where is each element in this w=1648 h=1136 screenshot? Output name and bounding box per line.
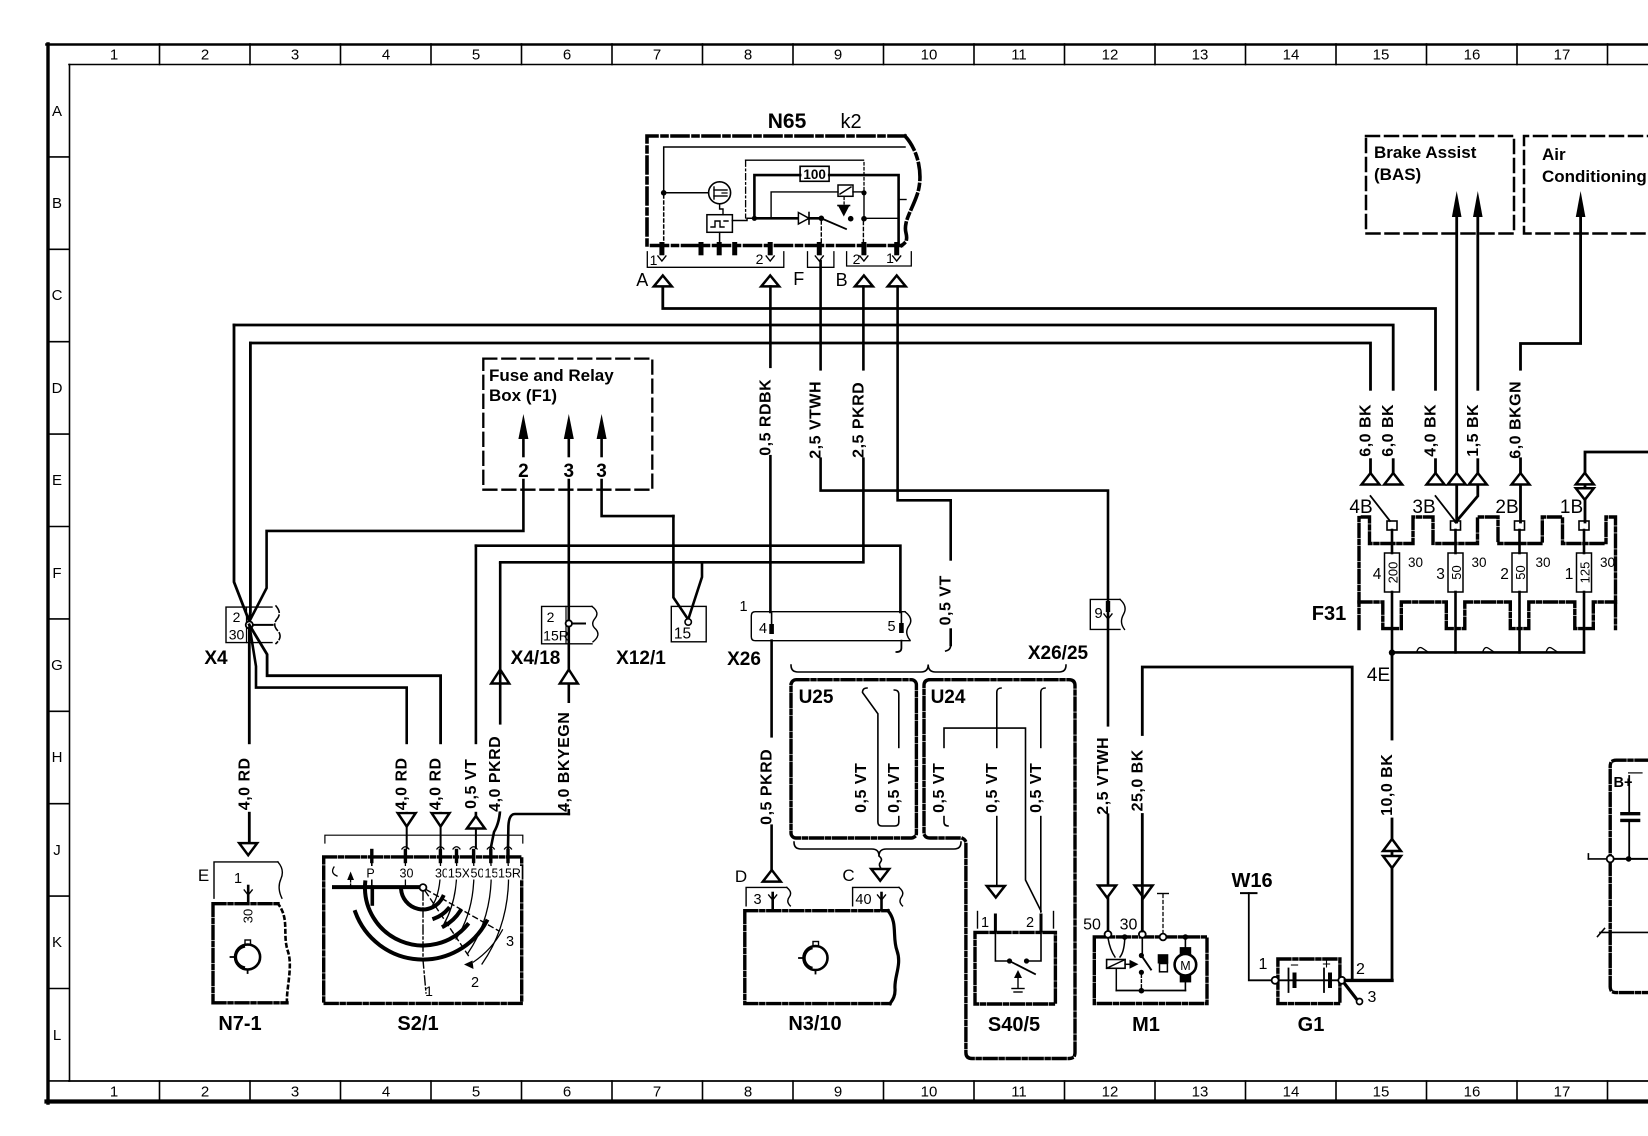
S2/1 position 2 line — [426, 892, 471, 959]
box Fuse and Relay Box (F1) — [483, 359, 652, 490]
wire 0,5 PKRD X26 pin4 to N3/10 pin3 — [770, 641, 773, 870]
svg-text:7: 7 — [653, 1084, 661, 1101]
svg-text:3: 3 — [1368, 989, 1377, 1006]
S2/1 terminal 30 — [404, 851, 407, 862]
N65 relay contact — [819, 216, 825, 222]
svg-text:F: F — [52, 565, 61, 582]
svg-text:1: 1 — [1259, 956, 1268, 973]
svg-text:3: 3 — [506, 934, 514, 950]
S2/1 terminal 30 — [439, 851, 442, 862]
N65 pulse generator — [720, 204, 723, 215]
U25 loop wire — [863, 688, 899, 826]
N65 electronic switch symbol — [838, 185, 853, 196]
svg-text:N65: N65 — [768, 110, 807, 133]
svg-text:4: 4 — [382, 1084, 390, 1101]
svg-text:S40/5: S40/5 — [988, 1014, 1040, 1036]
S2/1 terminal 50 — [472, 851, 475, 862]
box U24 with S40/5 extension — [924, 680, 1075, 1059]
svg-text:2: 2 — [201, 47, 209, 64]
svg-text:17: 17 — [1554, 1084, 1571, 1101]
svg-text:Box (F1): Box (F1) — [489, 386, 557, 405]
F1 arrow 3a — [564, 414, 574, 439]
S2/1 key symbol — [333, 867, 337, 876]
connector triangle S2/1 30a — [398, 813, 416, 827]
N65 second internal wire — [746, 159, 864, 161]
S2/1 terminal labels — [366, 866, 376, 880]
S2/1 position 1 line — [423, 891, 426, 993]
svg-text:4E: 4E — [1367, 665, 1390, 686]
S2/1 terminal curves — [404, 862, 406, 887]
svg-text:6: 6 — [563, 1084, 571, 1101]
fuse F31/2 — [1515, 521, 1525, 530]
connector X12/1 — [671, 606, 706, 641]
svg-text:15R: 15R — [543, 628, 569, 644]
svg-text:2,5 PKRD: 2,5 PKRD — [850, 382, 867, 458]
wire X4 to S2/1 30a — [249, 625, 406, 813]
S2/1 contact arcs — [401, 888, 443, 910]
svg-text:2: 2 — [756, 251, 764, 267]
N65 pin tick x=896.7 — [894, 245, 899, 253]
svg-text:125: 125 — [1578, 562, 1593, 584]
svg-text:4,0 RD: 4,0 RD — [236, 757, 253, 810]
svg-text:2B: 2B — [1495, 497, 1518, 518]
svg-text:100: 100 — [803, 167, 826, 182]
module N7-1 box — [213, 904, 287, 1003]
svg-text:K: K — [52, 934, 62, 951]
fuse F31/3 — [1451, 521, 1461, 530]
wire 0,5 RDBK N65 pin2 to X26 pin4 — [769, 286, 772, 612]
connector 9 — [1090, 599, 1120, 629]
svg-text:17: 17 — [1554, 47, 1571, 64]
svg-text:3B: 3B — [1412, 497, 1435, 518]
N7-1 pin bracket E/1 — [214, 862, 278, 898]
svg-text:2: 2 — [471, 975, 479, 991]
svg-text:S2/1: S2/1 — [397, 1013, 438, 1035]
svg-text:2: 2 — [201, 1084, 209, 1101]
svg-text:3: 3 — [291, 47, 299, 64]
connector X4 — [226, 607, 272, 643]
svg-text:2: 2 — [233, 609, 241, 625]
U24 wire left — [944, 728, 1041, 911]
wire X4 bus left leg upper — [234, 325, 249, 622]
svg-text:6,0 BK: 6,0 BK — [1380, 404, 1397, 457]
svg-text:0,5 VT: 0,5 VT — [984, 763, 1001, 813]
N65 pin tick x=701 — [699, 245, 704, 253]
wire X12/1 funnel — [688, 562, 702, 619]
box U25 — [791, 680, 916, 838]
wire F1-3b to X12/1 — [602, 480, 674, 516]
wire 0,5 VT N65 pin B1 to X26/25 — [898, 286, 951, 645]
svg-text:5: 5 — [887, 619, 895, 635]
wire X4 to N7-1 (4,0 RD) — [248, 629, 251, 844]
svg-text:2: 2 — [547, 609, 555, 625]
svg-text:11: 11 — [1011, 47, 1027, 64]
N65 pin bracket B group — [847, 252, 912, 266]
N65 wire pulse box to diode line — [732, 218, 754, 220]
svg-text:1: 1 — [110, 1084, 118, 1101]
connector triangle N7-1 — [239, 843, 257, 855]
N65 pin bracket F group — [808, 252, 834, 267]
connector symbol double triangle 1B — [1576, 473, 1594, 485]
svg-text:30: 30 — [241, 909, 256, 923]
svg-text:9: 9 — [834, 47, 842, 64]
svg-text:N3/10: N3/10 — [788, 1013, 841, 1035]
svg-text:15: 15 — [1373, 1084, 1390, 1101]
svg-text:1: 1 — [425, 983, 433, 999]
svg-text:5: 5 — [472, 47, 480, 64]
M1 solenoid — [1108, 938, 1115, 957]
fuse bus at bottom of F31 — [1392, 651, 1584, 654]
svg-text:X4/18: X4/18 — [511, 648, 561, 669]
S2/1 terminal 15R — [506, 851, 509, 862]
svg-text:N7-1: N7-1 — [218, 1013, 261, 1035]
svg-text:4: 4 — [382, 47, 390, 64]
G1 terminal 2 — [1338, 977, 1345, 984]
svg-text:50: 50 — [1513, 565, 1528, 579]
svg-text:3: 3 — [1436, 566, 1445, 583]
svg-text:6,0 BKGN: 6,0 BKGN — [1508, 381, 1525, 459]
N65 pin tick x=770.2 — [768, 245, 773, 253]
wire 50-line S2/1 to X26 pin 5 — [475, 546, 478, 816]
svg-text:50: 50 — [1449, 565, 1464, 579]
N65 wire pulse box to bottom pin — [719, 232, 721, 245]
N65 diode — [754, 217, 821, 220]
svg-text:A: A — [636, 270, 648, 290]
wire brace to N3/10 pin 40 — [879, 856, 882, 869]
S2/1 terminal P — [370, 851, 373, 862]
svg-text:Brake Assist: Brake Assist — [1374, 143, 1477, 162]
B+ wire horizontal — [1614, 858, 1648, 860]
S2/1 selector arrow — [473, 930, 502, 962]
B+ capacitor — [1628, 776, 1630, 812]
svg-text:A: A — [52, 103, 62, 120]
M1 switch — [1141, 938, 1143, 953]
svg-text:0,5 VT: 0,5 VT — [853, 763, 870, 813]
wire size/color labels — [1361, 391, 1380, 459]
svg-text:3: 3 — [291, 1084, 299, 1101]
svg-text:U25: U25 — [799, 687, 834, 708]
svg-text:4,0 PKRD: 4,0 PKRD — [487, 736, 504, 812]
svg-text:1: 1 — [981, 915, 989, 931]
wire bus X4 to F31 fuse 4B (6,0 BK lower) — [250, 343, 1370, 473]
svg-text:30: 30 — [1120, 917, 1138, 934]
N65 pin tick x=863.9 — [861, 245, 866, 253]
connector triangle 6,0 BK right — [1384, 473, 1402, 485]
svg-text:M: M — [1180, 959, 1190, 973]
svg-text:12: 12 — [1102, 1084, 1119, 1101]
svg-text:0,5 VT: 0,5 VT — [463, 759, 480, 809]
connector triangle M1 50 — [1098, 886, 1116, 898]
svg-text:X4: X4 — [204, 648, 228, 669]
svg-text:G: G — [51, 657, 63, 674]
M1 motor — [1180, 947, 1192, 954]
svg-text:B: B — [52, 195, 62, 212]
N65 internal junction — [661, 190, 667, 196]
relay module N65 box — [647, 136, 920, 246]
S2/1 position 3 line — [426, 890, 499, 932]
U24 wire center — [997, 688, 1001, 885]
svg-text:L: L — [53, 1027, 61, 1044]
svg-text:9: 9 — [1094, 605, 1102, 622]
svg-text:5: 5 — [472, 1084, 480, 1101]
svg-text:1: 1 — [740, 599, 748, 615]
svg-text:U24: U24 — [931, 687, 966, 708]
wire 4,0 PKRD S2/1 15 to 15-bus — [499, 564, 502, 807]
fuse F31/1 — [1579, 521, 1589, 530]
svg-text:F: F — [793, 269, 804, 289]
G1 terminal 3 — [1345, 984, 1357, 1000]
N65 internal wire to pin 1 — [663, 195, 665, 246]
svg-text:J: J — [53, 842, 61, 859]
svg-text:Air: Air — [1542, 145, 1566, 164]
svg-text:1B: 1B — [1560, 497, 1583, 518]
ground W16 — [1249, 893, 1272, 980]
funnel diagonals 4B — [1371, 496, 1391, 521]
svg-text:200: 200 — [1386, 562, 1401, 584]
connector triangle N65 pin B2 — [855, 276, 873, 287]
svg-text:6: 6 — [563, 47, 571, 64]
svg-text:4: 4 — [1373, 566, 1382, 583]
connector triangle 1,5 BK — [1469, 473, 1487, 485]
svg-text:50: 50 — [1083, 917, 1101, 934]
svg-text:4,0 RD: 4,0 RD — [428, 757, 445, 810]
brace X26/25 top — [791, 665, 1066, 673]
svg-text:2: 2 — [1026, 915, 1034, 931]
svg-text:14: 14 — [1283, 1084, 1300, 1101]
S2/1 actuator — [334, 885, 420, 889]
M1 motor junction — [1122, 934, 1128, 940]
F1 arrow 2 — [518, 414, 528, 439]
N3/10 pin 3 bracket — [746, 887, 787, 905]
svg-text:30: 30 — [1600, 555, 1615, 570]
svg-text:13: 13 — [1192, 1084, 1209, 1101]
connector triangle N65 pin B1 — [888, 276, 906, 287]
fuse box F31 outline — [1359, 517, 1616, 629]
svg-text:X26: X26 — [727, 649, 761, 670]
box Brake Assist (BAS) — [1366, 136, 1514, 234]
svg-text:15X: 15X — [448, 867, 471, 881]
svg-text:10: 10 — [921, 47, 938, 64]
connector triangle 4,0 PKRD — [491, 670, 509, 684]
F1 arrow 3b — [597, 414, 607, 439]
B+ lower wire — [1600, 931, 1648, 933]
box Air Conditioning — [1524, 136, 1648, 234]
svg-text:F31: F31 — [1312, 603, 1346, 625]
svg-text:0,5 VT: 0,5 VT — [931, 763, 948, 813]
svg-text:M1: M1 — [1132, 1014, 1160, 1036]
N65 zener diode — [843, 197, 845, 204]
svg-text:B: B — [836, 270, 848, 290]
N65 pin bracket A group — [647, 252, 784, 267]
svg-text:1,5 BK: 1,5 BK — [1465, 404, 1482, 457]
svg-text:X12/1: X12/1 — [616, 648, 666, 669]
connector symbol double triangle 10,0 BK — [1383, 839, 1401, 851]
svg-text:1: 1 — [650, 252, 658, 268]
M1 brush — [1158, 954, 1169, 963]
connector triangle 6,0 BK left — [1362, 473, 1380, 485]
svg-text:11: 11 — [1011, 1084, 1027, 1101]
svg-text:X26/25: X26/25 — [1028, 643, 1089, 664]
svg-text:8: 8 — [744, 47, 752, 64]
N65 internal top wire — [664, 147, 905, 190]
N65 transistor U — [667, 192, 709, 194]
S40/5 pin brackets — [977, 912, 979, 929]
connector triangle into S40/5 pin1 — [987, 886, 1005, 898]
connector triangle S2/1 30b — [432, 813, 450, 827]
wire 2,5 PKRD N65 pin B2 to node 15 — [500, 286, 863, 562]
svg-text:2,5 VTWH: 2,5 VTWH — [1095, 737, 1112, 815]
connector triangle N65 pin 2 — [761, 276, 779, 287]
N65 resistor 100 — [752, 216, 757, 221]
S2/1 terminal bracket — [325, 835, 523, 843]
wire 2,5 VTWH N65 pin F to M1 pin 50 — [821, 261, 1108, 931]
svg-text:16: 16 — [1464, 1084, 1481, 1101]
svg-text:Fuse and Relay: Fuse and Relay — [489, 366, 614, 385]
svg-text:30: 30 — [229, 627, 245, 643]
svg-text:0,5 PKRD: 0,5 PKRD — [759, 749, 776, 825]
node 4E — [1389, 649, 1395, 655]
wire F1-3a to X4/18 — [567, 480, 570, 620]
svg-text:9: 9 — [834, 1084, 842, 1101]
svg-text:4: 4 — [759, 621, 767, 637]
svg-text:D: D — [52, 380, 63, 397]
connector triangle 6,0 BKGN — [1512, 473, 1530, 485]
svg-text:P: P — [366, 867, 374, 881]
wire 25,0 BK M1 pin30 to G1 — [1142, 667, 1352, 980]
connector triangle M1 30 — [1135, 886, 1153, 898]
wire F31 1B exits right — [1585, 452, 1648, 522]
svg-text:4,0 BK: 4,0 BK — [1423, 404, 1440, 457]
wire F1-2 to X4 — [249, 480, 523, 622]
wire F31 2B to Air Conditioning (6,0 BKGN) — [1521, 217, 1581, 522]
brace U25/U24 bottom — [794, 842, 961, 856]
switch S40/5 box — [975, 932, 1055, 1004]
wire F31 3B to BAS arrow 1 — [1455, 217, 1458, 522]
svg-text:10,0 BK: 10,0 BK — [1379, 754, 1396, 816]
wire F31 3B to BAS arrow 2 (1,5 BK) — [1456, 217, 1478, 522]
svg-text:15: 15 — [674, 626, 691, 643]
svg-text:2,5 VTWH: 2,5 VTWH — [808, 381, 825, 459]
svg-text:40: 40 — [855, 892, 871, 908]
svg-text:Conditioning: Conditioning — [1542, 167, 1647, 186]
svg-text:0,5 VT: 0,5 VT — [938, 575, 955, 625]
N65 pin tick x=734.7 — [732, 245, 737, 253]
svg-text:7: 7 — [653, 47, 661, 64]
svg-text:3: 3 — [753, 892, 761, 908]
connector triangle 4,0 BK — [1427, 473, 1445, 485]
M1 linkage pin — [1160, 934, 1167, 941]
N3/10 valve symbol — [804, 946, 828, 970]
svg-text:4,0 BKYEGN: 4,0 BKYEGN — [556, 712, 573, 812]
battery G1 box — [1278, 959, 1340, 1004]
M1 pin 50 — [1105, 931, 1112, 938]
svg-text:0,5 RDBK: 0,5 RDBK — [757, 379, 774, 456]
wire X4 bus left leg lower — [249, 343, 250, 622]
svg-text:30: 30 — [1408, 555, 1423, 570]
wire bus X4 to F31 fuse 4B (6,0 BK upper) — [234, 325, 1393, 473]
N7-1 valve symbol — [235, 945, 260, 970]
svg-text:H: H — [52, 749, 63, 766]
svg-text:(BAS): (BAS) — [1374, 165, 1421, 184]
svg-text:15R: 15R — [498, 867, 521, 881]
connector triangle 4,0 BKYEGN — [560, 670, 578, 684]
wire X4 to S2/1 30b — [249, 625, 440, 813]
svg-text:14: 14 — [1283, 47, 1300, 64]
svg-text:4,0 RD: 4,0 RD — [394, 757, 411, 810]
svg-text:6,0 BK: 6,0 BK — [1358, 404, 1375, 457]
U24 wire right — [1041, 688, 1045, 912]
connector triangle N3/10 pin40 — [871, 869, 889, 881]
S2/1 terminal 15 — [489, 851, 492, 862]
connector X26 — [751, 612, 910, 641]
svg-text:G1: G1 — [1298, 1014, 1325, 1036]
connector triangle N65 pin A — [654, 276, 672, 287]
svg-text:D: D — [735, 867, 747, 886]
svg-text:13: 13 — [1192, 47, 1209, 64]
wire N65 pin A to F31 fuse 3B (4,0 BK) — [663, 286, 1436, 473]
svg-text:C: C — [842, 866, 854, 885]
svg-text:k2: k2 — [840, 111, 861, 133]
svg-text:1: 1 — [110, 47, 118, 64]
wire 10,0 BK 4E to G1 terminal 2 — [1391, 653, 1394, 981]
svg-text:2: 2 — [853, 251, 861, 267]
starter motor M1 box — [1094, 937, 1207, 1004]
svg-text:15: 15 — [485, 867, 499, 881]
N65 pin tick x=719.2 — [717, 245, 722, 253]
N65 stub to tear edge — [899, 199, 906, 201]
svg-text:4B: 4B — [1349, 497, 1372, 518]
ignition switch S2/1 box — [324, 857, 522, 1004]
svg-text:2: 2 — [1356, 961, 1365, 978]
svg-text:25,0 BK: 25,0 BK — [1130, 749, 1147, 811]
svg-text:1: 1 — [886, 250, 894, 266]
svg-text:12: 12 — [1102, 47, 1119, 64]
svg-text:E: E — [52, 472, 62, 489]
svg-text:0,5 VT: 0,5 VT — [886, 763, 903, 813]
module B+ partial box — [1610, 760, 1648, 992]
svg-text:30: 30 — [1472, 555, 1487, 570]
svg-text:1: 1 — [234, 871, 242, 887]
connector triangle 3B center — [1448, 473, 1466, 485]
fuse F31/4 — [1387, 521, 1397, 530]
N65 pin tick x=661.9 — [659, 245, 664, 253]
G1 terminal 1 — [1272, 977, 1279, 984]
svg-text:−: − — [1290, 957, 1299, 974]
svg-text:W16: W16 — [1231, 870, 1272, 892]
funnel diagonals 3B — [1436, 496, 1456, 521]
connector X4/18 — [542, 606, 592, 643]
svg-text:8: 8 — [744, 1084, 752, 1101]
M1 pin 30 — [1139, 931, 1146, 938]
wire X4/18 to S2/1 15R (4,0 BKYEGN) — [567, 627, 570, 814]
connector triangle N3/10 pin3 — [763, 870, 781, 882]
svg-text:30: 30 — [400, 867, 414, 881]
svg-text:1: 1 — [1565, 566, 1574, 583]
S2/1 terminal 15X — [455, 851, 458, 862]
svg-text:15: 15 — [1373, 47, 1390, 64]
X26 pin5 stub — [896, 641, 901, 652]
N65 pin tick x=819.3 — [817, 245, 822, 253]
svg-text:E: E — [198, 866, 209, 885]
svg-text:10: 10 — [921, 1084, 938, 1101]
connector triangle S2/1 50 — [467, 816, 485, 829]
N3/10 pin 40 bracket — [853, 887, 899, 905]
svg-text:C: C — [52, 287, 63, 304]
svg-text:50: 50 — [471, 867, 485, 881]
S40/5 internal switch — [995, 932, 1008, 961]
svg-text:2: 2 — [1500, 566, 1509, 583]
svg-text:30: 30 — [1536, 555, 1551, 570]
